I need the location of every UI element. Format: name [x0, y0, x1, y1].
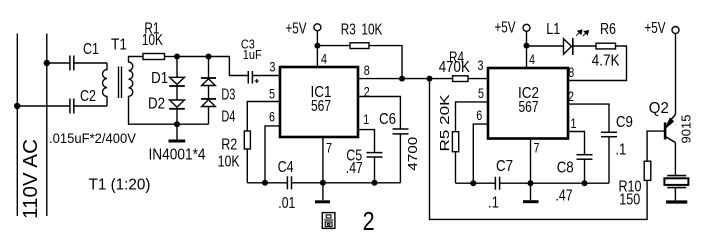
svg-text:IN4001*4: IN4001*4 — [149, 146, 206, 163]
diode D2 — [169, 86, 185, 124]
svg-text:6: 6 — [476, 107, 482, 123]
svg-text:+5V: +5V — [286, 20, 307, 37]
node pin6/C4 junction — [262, 180, 268, 186]
svg-text:5: 5 — [478, 85, 484, 101]
wire LED to R6 — [573, 45, 596, 47]
capacitor C5 — [367, 153, 383, 157]
wire IC1 pin 1 to C5 — [358, 130, 375, 153]
LED L1 — [564, 38, 573, 55]
pin 8 label IC2 — [568, 64, 574, 80]
pin 3 label IC1 — [269, 58, 275, 74]
label IC2 — [518, 85, 539, 102]
wire Q2 base to R10 — [647, 131, 665, 161]
label C7 value .1 — [488, 195, 499, 212]
label C9 value .1 — [615, 141, 626, 158]
label R3 value 10K — [361, 22, 382, 39]
label C6 value 4700 — [405, 137, 420, 171]
wire +5V to IC2 pin 4 — [526, 31, 528, 68]
capacitor C6 — [393, 129, 409, 134]
wire AC line 1 to C2 — [17, 105, 70, 107]
label Q2 value 9015 — [679, 114, 693, 143]
svg-text:D4: D4 — [221, 109, 235, 126]
buzzer HTD (piezo element) — [664, 176, 688, 201]
svg-text:.47: .47 — [556, 188, 573, 205]
resistor R2 — [244, 131, 250, 149]
svg-text:5: 5 — [269, 85, 275, 101]
resistor R3 — [350, 43, 369, 49]
svg-text:10K: 10K — [142, 32, 163, 49]
node junction on AC line 1 — [14, 103, 20, 109]
node A (rectifier top rail) — [174, 54, 180, 60]
svg-text:1: 1 — [363, 111, 369, 127]
capacitor C8 — [577, 155, 593, 160]
svg-text:1uF: 1uF — [243, 47, 262, 62]
wire R2 to bottom rail — [246, 149, 248, 183]
svg-text:4: 4 — [321, 50, 327, 66]
label C3 — [241, 37, 255, 52]
pin 8 label IC1 — [364, 62, 370, 78]
ground rectifier — [169, 124, 186, 141]
wire AC line 2 (110V AC right conductor) — [46, 34, 48, 217]
svg-text:8: 8 — [568, 64, 574, 80]
resistor R1 — [143, 54, 165, 60]
resistor R6 — [596, 43, 616, 49]
label C1 — [83, 41, 99, 58]
capacitor C1 — [70, 56, 74, 71]
label +5V (IC2) — [495, 19, 516, 36]
capacitor C2 — [70, 99, 74, 114]
ground buzzer — [666, 200, 687, 203]
svg-text:C9: C9 — [616, 114, 633, 131]
svg-text:4700: 4700 — [405, 137, 420, 171]
wire IC2 bottom rail right — [500, 182, 609, 184]
diode D3 — [201, 57, 216, 99]
label R1 — [144, 20, 159, 37]
wire node A to node B — [177, 56, 209, 58]
label C2 — [80, 88, 96, 105]
label T1 — [111, 37, 127, 54]
label C4 value .01 — [278, 195, 295, 212]
diode D1 — [169, 57, 185, 87]
node R3 tap — [314, 43, 320, 49]
svg-text:C6: C6 — [379, 111, 396, 128]
wire C2 to T1 primary bottom — [74, 105, 107, 107]
wire +5V to Q2 emitter — [675, 34, 677, 115]
svg-text:L1: L1 — [546, 21, 560, 38]
svg-text:.1: .1 — [615, 141, 626, 158]
svg-text:C8: C8 — [557, 159, 574, 176]
power +5V terminal (IC1) — [314, 24, 321, 31]
wire node B to C3 — [209, 57, 249, 76]
svg-text:567: 567 — [311, 98, 331, 115]
pin 5 label IC2 — [478, 85, 484, 101]
svg-text:.47: .47 — [346, 160, 363, 177]
svg-text:D3: D3 — [221, 87, 235, 104]
node pin8/R3 junction — [399, 76, 405, 82]
node rectifier bottom junction — [174, 121, 180, 127]
transformer T1 core — [119, 67, 122, 99]
label R6 value 4.7K — [592, 52, 620, 69]
svg-text:.015uF*2/400V: .015uF*2/400V — [49, 130, 137, 146]
label R4 value 470K — [439, 59, 470, 76]
wire C5 to bottom rail — [374, 157, 376, 183]
label IC1 value 567 — [311, 98, 331, 115]
transistor Q2 (9015 PNP) — [665, 115, 675, 143]
capacitor C7 — [495, 177, 499, 190]
svg-text:6: 6 — [269, 109, 275, 125]
op-amp IC2 body (567 tone decoder) — [488, 68, 568, 139]
LED L1 light arrows — [576, 30, 588, 36]
label C8 — [557, 159, 574, 176]
svg-text:D1: D1 — [151, 70, 168, 87]
wire AC line 2 to C1 — [47, 62, 70, 64]
label Q2 — [649, 100, 669, 117]
svg-text:7: 7 — [534, 139, 540, 155]
wire IC1 output feedback to R10 — [430, 79, 648, 220]
transformer T1 primary winding — [103, 63, 108, 106]
wire R5 to bottom rail — [455, 152, 457, 184]
wire C8 to bottom rail — [584, 159, 586, 183]
svg-text:D2: D2 — [148, 95, 165, 112]
wire R3 to pin8 rail — [369, 46, 402, 79]
svg-text:R6: R6 — [600, 21, 616, 38]
svg-text:2: 2 — [568, 88, 574, 104]
svg-text:R3: R3 — [341, 22, 356, 39]
pin 7 label IC1 — [326, 139, 332, 155]
label +5V (Q2) — [645, 20, 666, 37]
wire Q2 collector to buzzer — [674, 143, 676, 176]
wire IC1 pin 8 to IC2 pin 3 — [358, 78, 453, 80]
label L1 — [546, 21, 560, 38]
label C4 — [278, 159, 294, 176]
pin 3 label IC2 — [478, 57, 484, 73]
wire R1 to node A — [165, 56, 178, 58]
svg-text:8: 8 — [364, 62, 370, 78]
power +5V terminal (IC2) — [523, 24, 530, 31]
wire IC2 bottom rail left — [456, 182, 496, 184]
svg-text:+5V: +5V — [645, 20, 666, 37]
wire bottom rail right — [292, 182, 401, 184]
svg-text:4: 4 — [529, 51, 535, 67]
wire AC line 1 (110V AC left conductor) — [16, 34, 18, 217]
node junction on AC line 2 — [44, 60, 50, 66]
label IC2 value 567 — [519, 99, 539, 116]
label R6 — [600, 21, 616, 38]
label R5 20K — [438, 94, 452, 152]
caption glyph (Figure) — [322, 213, 335, 229]
svg-text:C2: C2 — [80, 88, 96, 105]
power +5V terminal (Q2) — [672, 27, 679, 34]
svg-text:C4: C4 — [278, 159, 294, 176]
svg-text:10K: 10K — [361, 22, 382, 39]
label .015uF*2/400V — [49, 130, 137, 146]
label R10 — [619, 179, 642, 196]
label C6 — [379, 111, 396, 128]
label R4 — [449, 50, 464, 67]
polarity + of C3 — [255, 79, 259, 83]
ground IC2 pin 7 — [523, 183, 539, 202]
svg-text:.01: .01 — [278, 195, 295, 212]
label C7 — [496, 158, 513, 175]
label D4 — [221, 109, 235, 126]
wire IC2 pin 6 down — [473, 124, 488, 183]
ground IC1 pin 7 — [315, 183, 330, 202]
wire C1 to T1 primary top — [74, 62, 107, 64]
node pin7 ground junction (IC2) — [528, 180, 534, 186]
label D2 — [148, 95, 165, 112]
pin 2 label IC1 — [364, 84, 370, 100]
label C9 — [616, 114, 633, 131]
svg-text:Q2: Q2 — [649, 100, 669, 117]
wire node to LED — [527, 45, 564, 47]
wire C3 to IC1 pin 3 — [252, 75, 280, 77]
label IN4001*4 — [149, 146, 206, 163]
node LED tap — [524, 43, 530, 49]
wire R4 to IC2 pin 3 — [468, 78, 488, 80]
capacitor C3 — [248, 71, 252, 84]
capacitor C9 — [601, 132, 617, 136]
capacitor C4 — [287, 176, 291, 189]
label R2 — [221, 137, 237, 154]
svg-text:470K: 470K — [439, 59, 470, 76]
op-amp IC1 body (567 tone decoder) — [280, 67, 358, 137]
wire IC1 pin 5 to R2 — [247, 102, 280, 132]
node pin7 ground junction — [320, 180, 326, 186]
wire IC1 pin 2 to C6 — [358, 97, 400, 130]
wire IC1 pin 7 down — [322, 137, 324, 183]
svg-text:+5V: +5V — [495, 19, 516, 36]
label 110V AC — [19, 139, 42, 219]
transformer T1 secondary winding — [129, 57, 178, 125]
node C5 bottom junction — [372, 180, 378, 186]
node pin6/C7 junction (IC2) — [470, 180, 476, 186]
svg-text:3: 3 — [478, 57, 484, 73]
label C3 value 1uF — [243, 47, 262, 62]
wire IC2 pin 7 down — [530, 139, 532, 184]
label R2 value 10K — [218, 154, 240, 171]
caption number 2 — [363, 206, 375, 236]
label T1 (1:20) — [89, 177, 151, 194]
svg-text:567: 567 — [519, 99, 539, 116]
label C5 value .47 — [346, 160, 363, 177]
label R10 value 150 — [619, 191, 640, 208]
wire bottom rail left — [247, 182, 287, 184]
wire R6 to IC2 pin 8 — [568, 46, 627, 81]
svg-text:3: 3 — [269, 58, 275, 74]
node C8 bottom junction — [582, 180, 588, 186]
wire IC2 pin 1 to C8 — [568, 132, 585, 155]
resistor R4 — [453, 76, 468, 82]
svg-text:10K: 10K — [218, 154, 240, 171]
pin 1 label IC2 — [571, 115, 577, 131]
label R1 value 10K — [142, 32, 163, 49]
svg-text:4.7K: 4.7K — [592, 52, 620, 69]
pin 5 label IC1 — [269, 85, 275, 101]
svg-text:R5 20K: R5 20K — [438, 94, 452, 152]
node pin8/feedback junction — [427, 76, 433, 82]
svg-text:.1: .1 — [488, 195, 499, 212]
svg-text:9015: 9015 — [679, 114, 693, 143]
wire rectifier bottom rail — [177, 123, 209, 125]
pin 2 label IC2 — [568, 88, 574, 104]
wire C9 to bottom rail — [608, 137, 610, 184]
wire +5V to IC1 pin 4 — [316, 31, 318, 67]
pin 4 label IC1 — [321, 50, 327, 66]
svg-text:2: 2 — [363, 206, 375, 236]
label D3 — [221, 87, 235, 104]
wire C6 to bottom rail — [399, 134, 401, 183]
pin 6 label IC2 — [476, 107, 482, 123]
label +5V (IC1) — [286, 20, 307, 37]
wire IC2 pin 5 to R5 — [456, 102, 489, 132]
svg-text:150: 150 — [619, 191, 640, 208]
svg-text:T1 (1:20): T1 (1:20) — [89, 177, 151, 194]
pin 4 label IC2 — [529, 51, 535, 67]
pin 6 label IC1 — [269, 109, 275, 125]
node B (D3 top) — [206, 54, 212, 60]
label C8 value .47 — [556, 188, 573, 205]
pin 1 label IC1 — [363, 111, 369, 127]
resistor R10 — [644, 161, 651, 180]
svg-text:T1: T1 — [111, 37, 127, 54]
wire IC2 pin 2 to C9 — [568, 104, 609, 132]
label C5 — [346, 148, 362, 165]
diode D4 — [201, 99, 216, 124]
label R3 — [341, 22, 356, 39]
pin 7 label IC2 — [534, 139, 540, 155]
svg-text:1: 1 — [571, 115, 577, 131]
wire IC1 pin 6 down — [265, 126, 280, 183]
svg-text:C1: C1 — [83, 41, 99, 58]
wire node to R3 — [317, 45, 350, 47]
label IC1 — [311, 84, 332, 101]
svg-text:C7: C7 — [496, 158, 513, 175]
svg-text:110V AC: 110V AC — [19, 139, 42, 219]
svg-text:R2: R2 — [221, 137, 237, 154]
svg-text:7: 7 — [326, 139, 332, 155]
resistor R5 — [452, 132, 458, 152]
label D1 — [151, 70, 168, 87]
